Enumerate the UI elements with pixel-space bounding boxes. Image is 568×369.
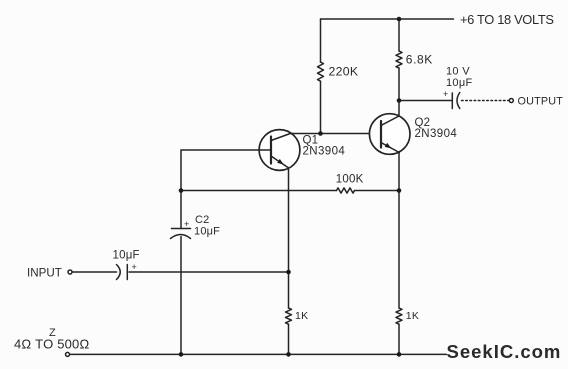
svg-text:C2: C2 — [195, 214, 209, 226]
svg-text:Q1: Q1 — [303, 134, 319, 146]
svg-text:100K: 100K — [336, 173, 364, 185]
svg-text:INPUT: INPUT — [27, 266, 62, 279]
svg-text:SeekIC.com: SeekIC.com — [447, 341, 562, 362]
svg-text:220K: 220K — [329, 64, 359, 78]
svg-text:+: + — [443, 89, 448, 99]
svg-text:2N3904: 2N3904 — [303, 146, 346, 158]
svg-text:10μF: 10μF — [446, 77, 473, 89]
svg-text:1K: 1K — [406, 310, 419, 322]
svg-text:+: + — [184, 219, 189, 229]
svg-text:10μF: 10μF — [194, 225, 220, 237]
svg-text:Q2: Q2 — [415, 117, 431, 129]
svg-text:6.8K: 6.8K — [406, 53, 433, 67]
svg-text:OUTPUT: OUTPUT — [518, 95, 564, 107]
svg-text:+6 TO 18 VOLTS: +6 TO 18 VOLTS — [460, 12, 554, 27]
svg-text:4Ω TO 500Ω: 4Ω TO 500Ω — [14, 336, 89, 351]
svg-text:+: + — [132, 262, 137, 272]
svg-text:10μF: 10μF — [113, 250, 140, 262]
svg-text:10 V: 10 V — [446, 66, 470, 78]
svg-text:2N3904: 2N3904 — [415, 128, 458, 140]
svg-text:1K: 1K — [295, 310, 308, 322]
